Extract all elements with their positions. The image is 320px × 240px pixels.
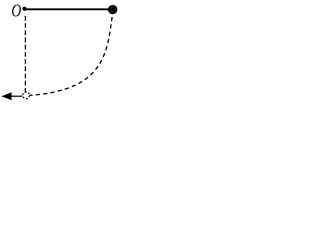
pendulum ball <box>108 5 117 14</box>
svg-text:O: O <box>11 2 21 21</box>
pivot dot <box>22 7 26 11</box>
ghost ball (dashed open circle) <box>23 92 30 99</box>
velocity arrow tail <box>11 95 23 97</box>
velocity arrow head <box>2 92 12 100</box>
rod wire (horizontal line) <box>25 8 113 10</box>
trajectory dashed arc <box>30 14 113 95</box>
vertical dashed reference line <box>24 16 26 92</box>
